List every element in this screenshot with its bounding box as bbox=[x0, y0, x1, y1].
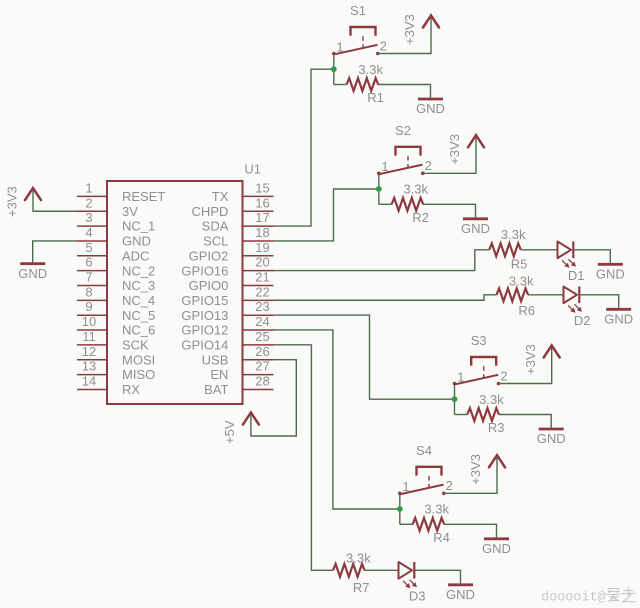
wire R3 to GND bbox=[499, 415, 551, 428]
svg-text:GPIO13: GPIO13 bbox=[181, 308, 228, 323]
svg-text:S4: S4 bbox=[416, 443, 432, 458]
pin 18 SCL stub bbox=[243, 240, 274, 242]
svg-text:EN: EN bbox=[210, 367, 228, 382]
wire S1 contact to junction to R1 bbox=[333, 54, 335, 85]
svg-text:R1: R1 bbox=[367, 90, 384, 105]
wire R2 to GND bbox=[423, 204, 475, 217]
+3V3 supply arrow at S4 bbox=[489, 455, 505, 467]
pin 5 ADC stub bbox=[77, 255, 107, 257]
pushbutton S3 dashed link bbox=[483, 366, 485, 379]
svg-text:5: 5 bbox=[85, 240, 92, 255]
wire S3 contact to junction to R3 bbox=[454, 384, 456, 415]
svg-text:2: 2 bbox=[425, 158, 432, 173]
LED D2 anode-cathode symbol bbox=[564, 287, 580, 304]
LED D1 anode-cathode symbol bbox=[558, 242, 574, 259]
pin 28 BAT stub bbox=[243, 388, 274, 390]
LED D3 emission arrows bbox=[403, 580, 417, 589]
junction node at S1 bbox=[331, 66, 337, 72]
svg-text:15: 15 bbox=[255, 180, 269, 195]
svg-text:16: 16 bbox=[255, 195, 269, 210]
pin 21 GPIO0 stub bbox=[243, 285, 274, 287]
pushbutton S1 dashed link bbox=[362, 36, 364, 49]
pin 6 NC_2 stub bbox=[77, 270, 107, 272]
wire pin 20 GPIO16 to R5 bbox=[274, 250, 490, 271]
svg-text:GPIO15: GPIO15 bbox=[181, 293, 228, 308]
pin 17 SDA stub bbox=[243, 225, 274, 227]
LED D3 anode-cathode symbol bbox=[399, 562, 415, 579]
svg-text:25: 25 bbox=[255, 329, 269, 344]
pin 23 GPIO13 stub bbox=[243, 314, 274, 316]
svg-text:11: 11 bbox=[82, 329, 96, 344]
svg-text:1: 1 bbox=[85, 180, 92, 195]
pin 12 MOSI stub bbox=[77, 359, 107, 361]
svg-text:27: 27 bbox=[255, 359, 269, 374]
resistor R2 3.3k bbox=[392, 198, 424, 211]
svg-text:2: 2 bbox=[500, 368, 507, 383]
ground left of U1 bbox=[18, 264, 47, 281]
ground at R3 bbox=[537, 429, 566, 446]
svg-text:GPIO14: GPIO14 bbox=[181, 338, 228, 353]
pushbutton S4 lever and contacts bbox=[398, 485, 446, 496]
svg-text:D3: D3 bbox=[409, 588, 426, 603]
svg-text:D1: D1 bbox=[568, 268, 585, 283]
svg-text:21: 21 bbox=[255, 270, 269, 285]
svg-text:+3V3: +3V3 bbox=[468, 454, 483, 485]
pin 14 RX stub bbox=[77, 388, 107, 390]
ground at D1 bbox=[596, 264, 625, 281]
svg-text:CHPD: CHPD bbox=[192, 204, 229, 219]
svg-text:22: 22 bbox=[255, 284, 269, 299]
pin 10 NC_6 stub bbox=[77, 329, 107, 331]
svg-text:3: 3 bbox=[85, 210, 92, 225]
svg-text:ADC: ADC bbox=[122, 248, 149, 263]
pushbutton S2 lever and contacts bbox=[377, 165, 425, 176]
wire R5 to D1 bbox=[521, 249, 558, 251]
pin 24 GPIO12 stub bbox=[243, 329, 274, 331]
pin 3 NC_1 stub bbox=[77, 225, 107, 227]
ground at R1 bbox=[416, 99, 445, 116]
svg-text:GPIO12: GPIO12 bbox=[181, 323, 228, 338]
wire pin 25 GPIO14 to R7 bbox=[274, 345, 334, 571]
svg-text:+3V3: +3V3 bbox=[447, 134, 462, 165]
resistor R4 3.3k bbox=[413, 518, 445, 531]
svg-text:3.3k: 3.3k bbox=[358, 62, 383, 77]
svg-text:17: 17 bbox=[255, 210, 269, 225]
pushbutton S4 dashed link bbox=[428, 476, 430, 489]
svg-text:1: 1 bbox=[402, 479, 409, 494]
svg-text:NC_6: NC_6 bbox=[122, 323, 155, 338]
wire D2 to GND bbox=[579, 295, 618, 308]
svg-text:6: 6 bbox=[85, 255, 92, 270]
wire D1 to GND bbox=[573, 250, 610, 263]
+3V3 supply arrow at S2 bbox=[468, 135, 484, 147]
svg-text:NC_3: NC_3 bbox=[122, 278, 155, 293]
svg-text:U1: U1 bbox=[244, 162, 261, 177]
svg-text:R4: R4 bbox=[433, 530, 450, 545]
svg-text:GND: GND bbox=[122, 234, 151, 249]
svg-text:24: 24 bbox=[255, 314, 269, 329]
svg-text:NC_2: NC_2 bbox=[122, 263, 155, 278]
svg-text:2: 2 bbox=[380, 38, 387, 53]
svg-text:GPIO16: GPIO16 bbox=[181, 263, 228, 278]
svg-text:RX: RX bbox=[122, 382, 140, 397]
pin 11 SCK stub bbox=[77, 344, 107, 346]
svg-text:SDA: SDA bbox=[202, 219, 229, 234]
wire S2 contact to junction to R2 bbox=[378, 173, 380, 204]
resistor R3 3.3k bbox=[467, 408, 499, 421]
wire S4 contact to junction to R4 bbox=[399, 493, 401, 524]
wire junction to R3 bbox=[455, 414, 468, 416]
svg-text:GND: GND bbox=[18, 266, 47, 281]
junction node at S3 bbox=[452, 396, 458, 402]
pin 1 RESET stub bbox=[77, 195, 107, 197]
pin 16 CHPD stub bbox=[243, 210, 274, 212]
svg-text:S2: S2 bbox=[395, 123, 411, 138]
IC U1 body bbox=[107, 181, 243, 404]
svg-text:7: 7 bbox=[85, 270, 92, 285]
svg-text:3.3k: 3.3k bbox=[403, 182, 428, 197]
pin 19 GPIO2 stub bbox=[243, 255, 274, 257]
svg-text:8: 8 bbox=[85, 284, 92, 299]
wire R6 to D2 bbox=[528, 294, 563, 296]
pin 22 GPIO15 stub bbox=[243, 299, 274, 301]
wire pin 17 SDA to S1 junction bbox=[274, 69, 334, 226]
svg-text:+3V3: +3V3 bbox=[5, 186, 20, 217]
svg-text:TX: TX bbox=[212, 189, 229, 204]
wire pin 18 SCL to S2 junction bbox=[274, 189, 379, 241]
svg-text:GND: GND bbox=[604, 312, 633, 327]
svg-text:10: 10 bbox=[82, 314, 96, 329]
pin 2 3V stub bbox=[77, 210, 107, 212]
svg-text:2: 2 bbox=[446, 478, 453, 493]
svg-text:R6: R6 bbox=[518, 303, 535, 318]
svg-text:28: 28 bbox=[255, 373, 269, 388]
svg-text:23: 23 bbox=[255, 299, 269, 314]
ground at D2 bbox=[604, 309, 633, 326]
svg-text:R5: R5 bbox=[511, 256, 528, 271]
svg-text:3.3k: 3.3k bbox=[424, 502, 449, 517]
wire pin 23 GPIO13 to S3 junction bbox=[274, 315, 455, 399]
pushbutton S4 actuator bracket bbox=[417, 467, 442, 476]
svg-text:26: 26 bbox=[255, 344, 269, 359]
wire pin 4 (GND) to ground bbox=[33, 241, 77, 262]
svg-text:GND: GND bbox=[482, 541, 511, 556]
svg-text:GPIO2: GPIO2 bbox=[189, 248, 229, 263]
svg-text:18: 18 bbox=[255, 225, 269, 240]
ground at R2 bbox=[461, 219, 490, 236]
svg-text:1: 1 bbox=[381, 159, 388, 174]
svg-text:3.3k: 3.3k bbox=[479, 392, 504, 407]
wire pin 24 GPIO12 to S4 junction bbox=[274, 330, 400, 509]
wire +3V3 to pin 2 (3V) bbox=[33, 190, 77, 211]
svg-text:S3: S3 bbox=[471, 333, 487, 348]
svg-text:14: 14 bbox=[82, 373, 96, 388]
wire S2 pin2 to +3V3 bbox=[423, 137, 476, 173]
svg-text:20: 20 bbox=[255, 255, 269, 270]
svg-text:4: 4 bbox=[85, 225, 92, 240]
svg-text:GND: GND bbox=[461, 221, 490, 236]
pushbutton S1 actuator bracket bbox=[351, 27, 376, 36]
svg-text:+3V3: +3V3 bbox=[402, 14, 417, 45]
svg-text:BAT: BAT bbox=[204, 382, 228, 397]
LED D1 emission arrows bbox=[562, 259, 576, 268]
pin 25 GPIO14 stub bbox=[243, 344, 274, 346]
wire S3 pin2 to +3V3 bbox=[499, 347, 552, 383]
svg-text:19: 19 bbox=[255, 240, 269, 255]
+5V supply arrow bbox=[243, 413, 259, 425]
svg-text:13: 13 bbox=[82, 359, 96, 374]
wire R7 to D3 bbox=[365, 569, 399, 571]
+3V3 supply arrow at S3 bbox=[544, 345, 560, 357]
wire pin 26 USB to +5V bbox=[251, 360, 296, 436]
svg-text:3.3k: 3.3k bbox=[346, 550, 371, 565]
svg-text:3V: 3V bbox=[122, 204, 138, 219]
junction node at S2 bbox=[376, 186, 382, 192]
svg-text:NC_4: NC_4 bbox=[122, 293, 155, 308]
wire R1 to GND bbox=[378, 85, 430, 98]
pin 4 GND stub bbox=[77, 240, 107, 242]
svg-text:1: 1 bbox=[336, 39, 343, 54]
+3V3 supply arrow left of U1 bbox=[25, 188, 41, 200]
pushbutton S2 actuator bracket bbox=[396, 147, 421, 156]
svg-text:1: 1 bbox=[457, 369, 464, 384]
resistor R7 3.3k bbox=[333, 564, 365, 577]
svg-text:+3V3: +3V3 bbox=[523, 344, 538, 375]
ground at R4 bbox=[482, 539, 511, 556]
svg-text:MOSI: MOSI bbox=[122, 352, 155, 367]
pin 15 TX stub bbox=[243, 195, 274, 197]
svg-text:12: 12 bbox=[82, 344, 96, 359]
svg-text:dooooit@: dooooit@ bbox=[541, 591, 606, 606]
svg-text:GND: GND bbox=[596, 267, 625, 282]
pin 8 NC_4 stub bbox=[77, 299, 107, 301]
pin 27 EN stub bbox=[243, 374, 274, 376]
svg-text:R7: R7 bbox=[353, 580, 370, 595]
resistor R6 3.3k bbox=[497, 288, 529, 301]
svg-text:RESET: RESET bbox=[122, 189, 165, 204]
ground at D3 bbox=[446, 585, 475, 602]
pushbutton S2 dashed link bbox=[407, 156, 409, 169]
svg-text:+5V: +5V bbox=[222, 420, 237, 444]
svg-text:9: 9 bbox=[85, 299, 92, 314]
svg-text:R3: R3 bbox=[488, 420, 505, 435]
wire S4 pin2 to +3V3 bbox=[444, 457, 497, 493]
svg-text:NC_1: NC_1 bbox=[122, 219, 155, 234]
watermark CJK glyphs bbox=[607, 588, 636, 603]
svg-text:D2: D2 bbox=[574, 313, 591, 328]
resistor R1 3.3k bbox=[347, 78, 379, 91]
pin 26 USB stub bbox=[243, 359, 274, 361]
wire junction to R4 bbox=[400, 523, 413, 525]
+3V3 supply arrow at S1 bbox=[423, 15, 439, 27]
svg-text:GND: GND bbox=[446, 587, 475, 602]
svg-text:3.3k: 3.3k bbox=[509, 274, 534, 289]
svg-text:S1: S1 bbox=[350, 3, 366, 18]
svg-text:3.3k: 3.3k bbox=[501, 227, 526, 242]
svg-text:GND: GND bbox=[537, 431, 566, 446]
svg-text:R2: R2 bbox=[412, 210, 429, 225]
svg-text:GND: GND bbox=[416, 101, 445, 116]
pin 13 MISO stub bbox=[77, 374, 107, 376]
wire D3 to GND bbox=[414, 570, 460, 583]
svg-text:2: 2 bbox=[85, 195, 92, 210]
resistor R5 3.3k bbox=[489, 243, 521, 256]
wire S1 pin2 to +3V3 bbox=[378, 17, 431, 53]
junction node at S4 bbox=[397, 506, 403, 512]
svg-text:NC_5: NC_5 bbox=[122, 308, 155, 323]
svg-text:USB: USB bbox=[202, 352, 229, 367]
pushbutton S3 lever and contacts bbox=[453, 375, 501, 386]
pin 7 NC_3 stub bbox=[77, 285, 107, 287]
pin 9 NC_5 stub bbox=[77, 314, 107, 316]
pushbutton S3 actuator bracket bbox=[471, 357, 496, 366]
pushbutton S1 lever and contacts bbox=[332, 45, 380, 56]
wire junction to R1 bbox=[334, 84, 347, 86]
wire junction to R2 bbox=[379, 203, 392, 205]
svg-text:SCK: SCK bbox=[122, 338, 149, 353]
LED D2 emission arrows bbox=[568, 304, 582, 313]
svg-text:SCL: SCL bbox=[203, 234, 228, 249]
wire pin 22 GPIO15 to R6 bbox=[274, 295, 497, 300]
svg-text:GPIO0: GPIO0 bbox=[189, 278, 229, 293]
wire R4 to GND bbox=[444, 524, 496, 537]
svg-text:MISO: MISO bbox=[122, 367, 155, 382]
pin 20 GPIO16 stub bbox=[243, 270, 274, 272]
